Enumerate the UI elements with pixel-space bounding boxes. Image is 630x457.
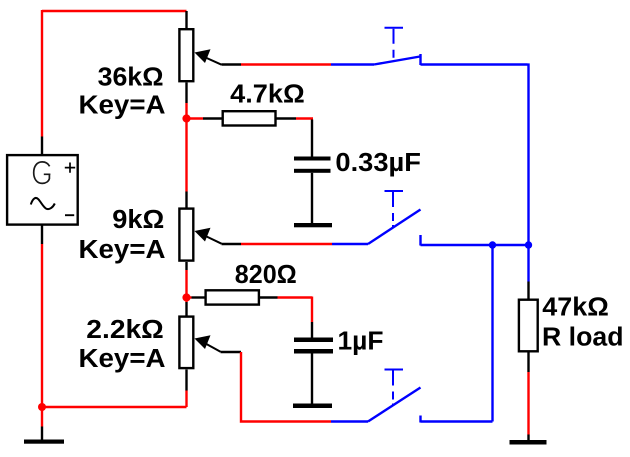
wire ground left lead [41,427,43,440]
node A junction dot [182,114,190,122]
capacitor C2 top lead [311,322,313,338]
node B junction dot [182,293,190,301]
switch J1 key indicator T [385,27,404,29]
wire node D riser (blue) [491,245,493,422]
svg-text:Key=A: Key=A [79,92,166,120]
generator V1 box [7,155,78,225]
switch J2 key indicator T [385,190,404,192]
potentiometer R5 2.2k body [179,317,193,369]
potentiometer R5 bottom lead [185,370,187,391]
resistor R2 right lead [277,117,297,119]
wire R2 to C1 (red) [296,117,313,119]
potentiometer R1 36k body [179,29,193,81]
wire wiper3 black segment [221,351,242,353]
resistor R4 right lead [260,296,278,298]
resistor R2 left lead [203,117,222,119]
wire node B down (red) [185,298,187,303]
potentiometer R3 9k top lead [185,192,187,209]
svg-text:1µF: 1µF [338,328,384,356]
wire node B to R4 (red) [187,296,192,298]
switch J1 right contact tick [419,54,421,65]
resistor R load top lead [527,282,529,299]
wire left rail lower (red) [41,244,43,407]
node junction dot bottom-left [38,403,46,411]
wire wiper2 black segment [222,243,242,245]
potentiometer R1 wiper arrow [195,49,211,63]
wire wiper3 drop and bottom run (red) [241,352,331,422]
svg-text:Key=A: Key=A [79,236,166,264]
node C junction dot [525,241,532,248]
wire pot3 to bottom rail (red) [185,391,187,408]
wire node C to R load (blue) [527,245,529,282]
svg-text:820Ω: 820Ω [235,261,297,289]
capacitor C1 bottom lead [311,173,313,223]
svg-text:4.7kΩ: 4.7kΩ [230,81,305,109]
wire top rail (red) [42,10,187,12]
potentiometer R3 bottom lead [185,262,187,270]
potentiometer R3 9k body [179,209,193,261]
switch J3 left wire (blue) [331,420,368,422]
ground symbol right [510,440,547,445]
capacitor C2 bottom lead [311,354,313,404]
ground symbol for C2 [293,404,332,409]
wire wiper1 black segment [222,63,242,65]
ground symbol left [24,440,64,444]
wire switch J3 output (blue) [421,420,493,422]
wire pot2 to node B (red) [185,270,187,298]
potentiometer R5 2.2k top lead [185,302,187,316]
switch J3 key indicator T [385,369,404,371]
wire to ground left (red) [41,407,43,427]
resistor R2 4.7k body [223,111,276,125]
switch J2 blade (open) [368,210,421,245]
generator plus terminal mark [65,163,75,173]
potentiometer R1 bottom lead [185,83,187,104]
generator minus terminal mark [65,214,74,216]
svg-text:47kΩ: 47kΩ [542,294,609,322]
wire R4 to C2 (red) [278,297,313,323]
wire left rail upper (red) [41,10,43,137]
resistor R load bottom lead [527,353,529,373]
wire switch J2 output (blue) [421,244,529,246]
capacitor C1 0.33u plates [294,157,331,161]
wire generator top lead [41,137,43,155]
svg-text:Key=A: Key=A [79,345,166,373]
switch J3 right contact tick [419,416,421,423]
capacitor C2 1u plates [294,338,333,343]
resistor R4 820 body [206,290,259,304]
potentiometer R3 wiper arrow [195,228,211,242]
node D junction dot [489,241,496,248]
resistor R4 left lead [192,296,205,298]
potentiometer R5 wiper arrow [195,335,211,349]
svg-text:9kΩ: 9kΩ [112,206,164,234]
wire pot1 to node A (red) [185,103,187,119]
generator sine symbol [31,198,55,209]
wire wiper1 red segment [241,63,331,65]
capacitor C1 top lead [311,120,313,157]
switch J1 blade (closed) [374,57,420,65]
potentiometer R1 36k top lead [185,11,187,29]
wire R load to ground (red) [527,372,529,435]
generator label G [34,162,51,184]
wire bottom rail (red) [42,406,187,408]
ground symbol for C1 [294,223,332,227]
svg-text:2.2kΩ: 2.2kΩ [86,316,164,344]
wire generator bottom lead [41,225,43,244]
switch J3 blade (open) [368,388,421,422]
svg-text:R load: R load [542,324,624,352]
wire node A to R2 (red) [187,117,204,119]
switch J1 left wire (blue) [331,63,374,65]
wire ground right lead [527,435,529,441]
svg-text:36kΩ: 36kΩ [98,64,164,92]
wire wiper2 red segment [241,243,332,245]
svg-text:0.33µF: 0.33µF [335,149,421,177]
resistor R load 47k body [519,300,538,352]
wire switch J1 output (blue) [421,63,529,245]
switch J2 right contact tick [419,235,421,246]
switch J2 left wire (blue) [332,243,368,245]
wire node A down (red) [185,119,187,192]
